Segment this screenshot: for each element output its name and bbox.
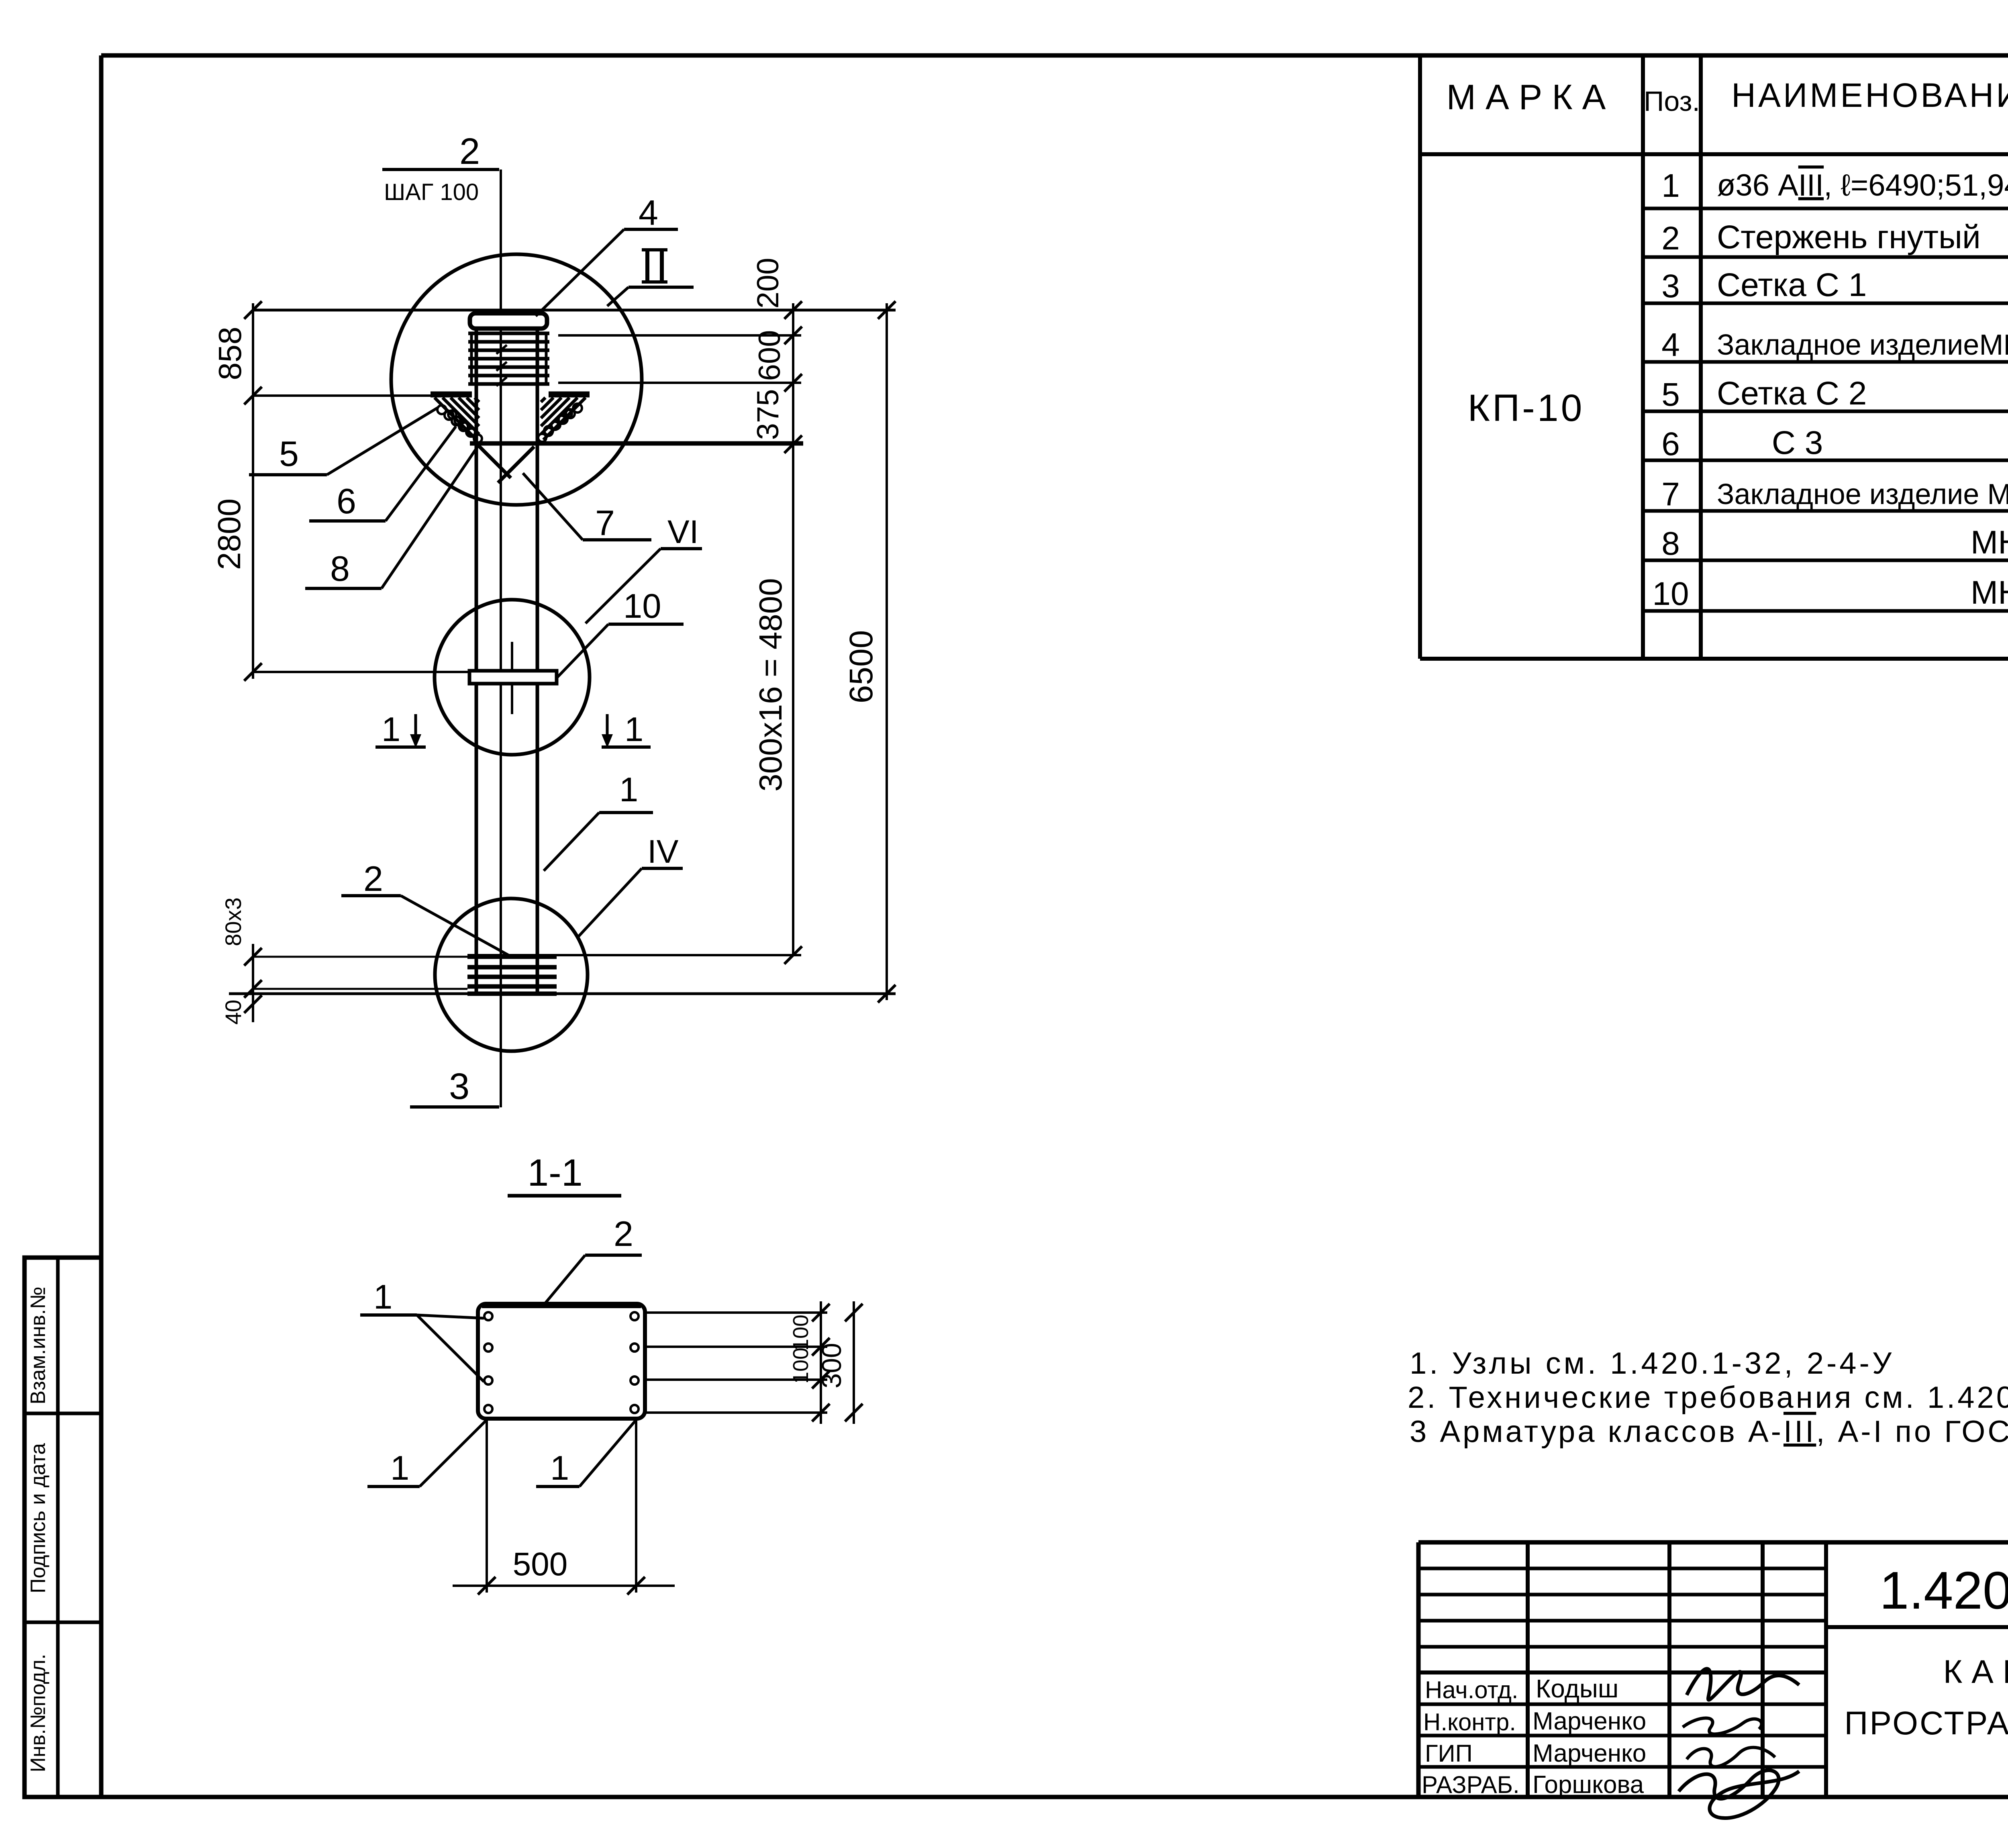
svg-text:Н.контр.: Н.контр. xyxy=(1423,1709,1516,1736)
svg-text:6: 6 xyxy=(337,481,356,521)
svg-text:10: 10 xyxy=(1652,576,1689,612)
svg-text:С 3: С 3 xyxy=(1717,425,1823,461)
svg-text:Марченко: Марченко xyxy=(1533,1707,1646,1735)
svg-text:1: 1 xyxy=(550,1449,569,1487)
svg-text:ПРОСТРАНСТВЕННЫЙ: ПРОСТРАНСТВЕННЫЙ xyxy=(1844,1705,2008,1742)
svg-text:10: 10 xyxy=(623,587,661,625)
svg-text:Нач.отд.: Нач.отд. xyxy=(1425,1676,1518,1703)
svg-text:Кодыш: Кодыш xyxy=(1536,1674,1618,1703)
svg-text:4: 4 xyxy=(1661,327,1680,363)
svg-text:600: 600 xyxy=(753,330,787,381)
svg-text:МН4: МН4 xyxy=(1971,524,2008,561)
svg-text:300x16 = 4800: 300x16 = 4800 xyxy=(753,578,788,792)
svg-text:1: 1 xyxy=(390,1449,409,1487)
svg-text:100: 100 xyxy=(789,1348,813,1384)
svg-text:ø36 АIII, ℓ=6490;51,94кг: ø36 АIII, ℓ=6490;51,94кг xyxy=(1717,168,2008,202)
svg-text:КП-10: КП-10 xyxy=(1468,387,1585,429)
svg-text:200: 200 xyxy=(751,258,785,309)
svg-text:1-1: 1-1 xyxy=(527,1152,582,1194)
svg-text:3: 3 xyxy=(1661,268,1680,304)
svg-text:ГИП: ГИП xyxy=(1425,1740,1473,1767)
svg-text:375: 375 xyxy=(751,389,785,440)
svg-text:3 Арматура классов А-III, А-: 3 Арматура классов А-III, А-I по ГОСТ578… xyxy=(1410,1415,2008,1449)
svg-text:Закладное изделие МН3: Закладное изделие МН3 xyxy=(1717,478,2008,510)
svg-text:НАИМЕНОВАНИЕ: НАИМЕНОВАНИЕ xyxy=(1731,76,2008,114)
svg-text:Инв.№подл.: Инв.№подл. xyxy=(27,1654,50,1772)
svg-text:1: 1 xyxy=(1661,167,1680,204)
svg-text:Взам.инв.№: Взам.инв.№ xyxy=(27,1286,50,1404)
svg-text:5: 5 xyxy=(1661,376,1680,413)
svg-text:Стержень гнутый: Стержень гнутый xyxy=(1717,219,1981,255)
svg-text:3: 3 xyxy=(449,1066,469,1107)
svg-text:5: 5 xyxy=(279,434,299,474)
svg-text:VI: VI xyxy=(667,514,698,550)
svg-text:4: 4 xyxy=(639,193,658,233)
svg-text:2: 2 xyxy=(614,1214,633,1254)
svg-text:6500: 6500 xyxy=(843,630,880,703)
svg-text:IV: IV xyxy=(647,833,679,870)
svg-text:МАРКА: МАРКА xyxy=(1447,77,1616,117)
svg-text:858: 858 xyxy=(212,327,248,380)
svg-text:2800: 2800 xyxy=(211,498,247,570)
svg-text:Сетка С 1: Сетка С 1 xyxy=(1717,267,1867,303)
svg-text:Закладное изделиеМН1: Закладное изделиеМН1 xyxy=(1717,329,2008,361)
svg-text:100: 100 xyxy=(789,1315,813,1351)
svg-text:2: 2 xyxy=(1661,220,1680,257)
svg-text:1: 1 xyxy=(373,1278,392,1316)
svg-text:2: 2 xyxy=(363,859,383,898)
svg-text:40: 40 xyxy=(220,1000,246,1025)
svg-text:300: 300 xyxy=(816,1343,847,1388)
svg-text:80x3: 80x3 xyxy=(220,897,246,946)
svg-text:Марченко: Марченко xyxy=(1533,1740,1646,1767)
svg-text:8: 8 xyxy=(330,549,350,588)
svg-text:ШАГ 100: ШАГ 100 xyxy=(384,179,479,205)
svg-text:2: 2 xyxy=(459,131,480,172)
svg-text:Поз.: Поз. xyxy=(1644,86,1700,117)
svg-text:8: 8 xyxy=(1661,525,1680,562)
svg-text:1. Узлы см. 1.420.1-32, 2-4-: 1. Узлы см. 1.420.1-32, 2-4-У xyxy=(1410,1346,1894,1380)
svg-text:1: 1 xyxy=(619,771,638,809)
svg-text:7: 7 xyxy=(595,503,615,543)
svg-text:6: 6 xyxy=(1661,426,1680,462)
svg-text:РАЗРАБ.: РАЗРАБ. xyxy=(1422,1771,1520,1798)
svg-text:7: 7 xyxy=(1661,476,1680,513)
svg-text:2. Технические требования см.: 2. Технические требования см. 1.420.1-32… xyxy=(1408,1380,2008,1415)
svg-text:Сетка С 2: Сетка С 2 xyxy=(1717,375,1867,412)
svg-text:1.420.1-32 . 2-4 – 6: 1.420.1-32 . 2-4 – 6 xyxy=(1879,1561,2008,1620)
svg-text:1: 1 xyxy=(624,711,643,749)
svg-text:К А Р К А С: К А Р К А С xyxy=(1943,1654,2008,1690)
svg-text:Горшкова: Горшкова xyxy=(1533,1771,1644,1799)
svg-text:500: 500 xyxy=(513,1546,568,1583)
svg-text:1: 1 xyxy=(382,711,400,749)
svg-text:МН6: МН6 xyxy=(1971,574,2008,611)
svg-text:Подпись и дата: Подпись и дата xyxy=(27,1443,50,1593)
